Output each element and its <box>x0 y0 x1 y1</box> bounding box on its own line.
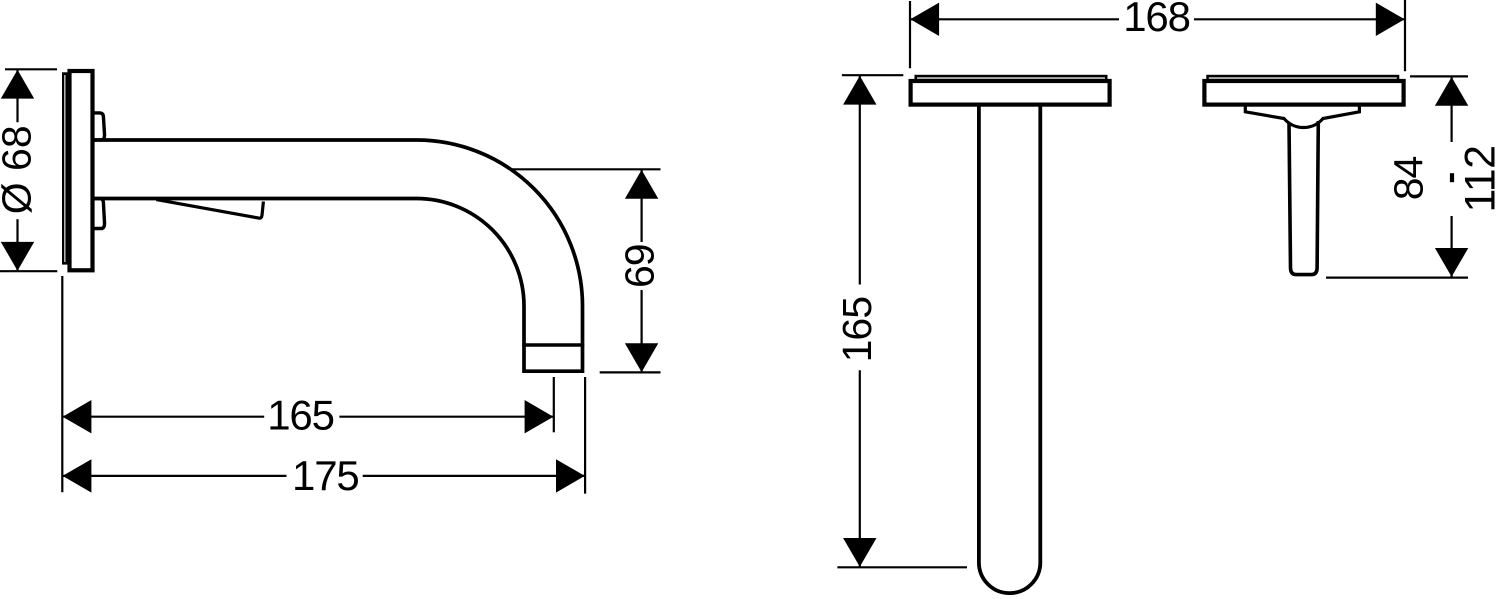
svg-text:69: 69 <box>617 244 663 288</box>
dim 168: left extension line <box>909 1 911 68</box>
spout outline (side view, curved tube) <box>93 140 583 371</box>
wall plate thin rim (side view) <box>62 72 69 264</box>
spout tube (plan view) <box>979 104 1040 594</box>
svg-text:112: 112 <box>1456 145 1500 212</box>
handle escutcheon rim (plan view) <box>1206 75 1399 82</box>
left extension line below plate <box>61 276 63 492</box>
wall plate body (side view) <box>70 71 93 270</box>
dim 69: up arrowhead <box>625 170 658 199</box>
svg-text:84: 84 <box>1386 157 1432 201</box>
svg-text:165: 165 <box>267 392 333 439</box>
dim Ø68: dimension line segments <box>16 70 18 122</box>
extension line for 175 (left view) <box>584 377 586 494</box>
spout escutcheon body (plan view) <box>911 81 1110 105</box>
spout escutcheon rim (plan view) <box>915 75 1108 82</box>
dim 84-112: dimension line segments <box>1450 77 1452 142</box>
upper mounting tab behind plate <box>92 113 105 140</box>
handle rosette dish and dome <box>1245 106 1359 128</box>
dim 165: left arrowhead <box>63 400 92 433</box>
aerator band line at spout tip <box>522 343 584 346</box>
dim 165 (plan view): up arrowhead <box>843 76 876 105</box>
dim 175: left arrowhead <box>63 459 92 492</box>
lower mounting tab behind plate <box>92 199 105 229</box>
extension line for 165 (left view) <box>553 377 555 432</box>
svg-text:168: 168 <box>1123 0 1189 40</box>
dim 168: right arrowhead <box>1376 3 1405 36</box>
dim 84-112: down arrowhead <box>1435 248 1468 277</box>
dim 175: dimension line segments <box>63 475 287 477</box>
dim Ø68: up arrowhead <box>1 70 34 99</box>
dim Ø68: bottom extension line <box>0 270 57 272</box>
dim 69: dimension line segments <box>640 170 642 242</box>
dim 84-112: hyphen dash on line <box>1450 173 1454 182</box>
dim Ø68: top extension line <box>5 68 57 70</box>
handle stem <box>1289 121 1318 275</box>
dim 69: top extension line <box>511 168 661 170</box>
dim 84-112: top extension line <box>1410 75 1468 77</box>
dim 165 (plan view): dimension line segments <box>859 76 861 285</box>
svg-text:165: 165 <box>834 297 880 363</box>
dim 168: left arrowhead <box>910 3 939 36</box>
dim 168: dimension line segments <box>911 18 1120 20</box>
dim 165: right arrowhead <box>525 400 554 433</box>
handle escutcheon body (plan view) <box>1204 81 1403 105</box>
dim 175: right arrowhead <box>556 459 585 492</box>
svg-text:Ø 68: Ø 68 <box>0 125 40 214</box>
dim 165 (plan view): bottom extension line <box>837 566 967 568</box>
dim 84-112: bottom extension line <box>1326 277 1468 279</box>
dim 165 (left view): dimension line segments <box>63 416 264 418</box>
dim 165 (plan view): down arrowhead <box>843 538 876 567</box>
dim 84-112: up arrowhead <box>1435 77 1468 106</box>
svg-text:175: 175 <box>292 452 358 499</box>
dim 69: down arrowhead <box>625 343 658 372</box>
wedge detail under spout <box>156 200 263 219</box>
dim 165 (plan view): top extension line <box>842 74 903 76</box>
dim Ø68: down arrowhead <box>1 242 34 271</box>
dim 168: right extension line <box>1404 0 1406 71</box>
dim 69: bottom extension line <box>600 371 661 373</box>
